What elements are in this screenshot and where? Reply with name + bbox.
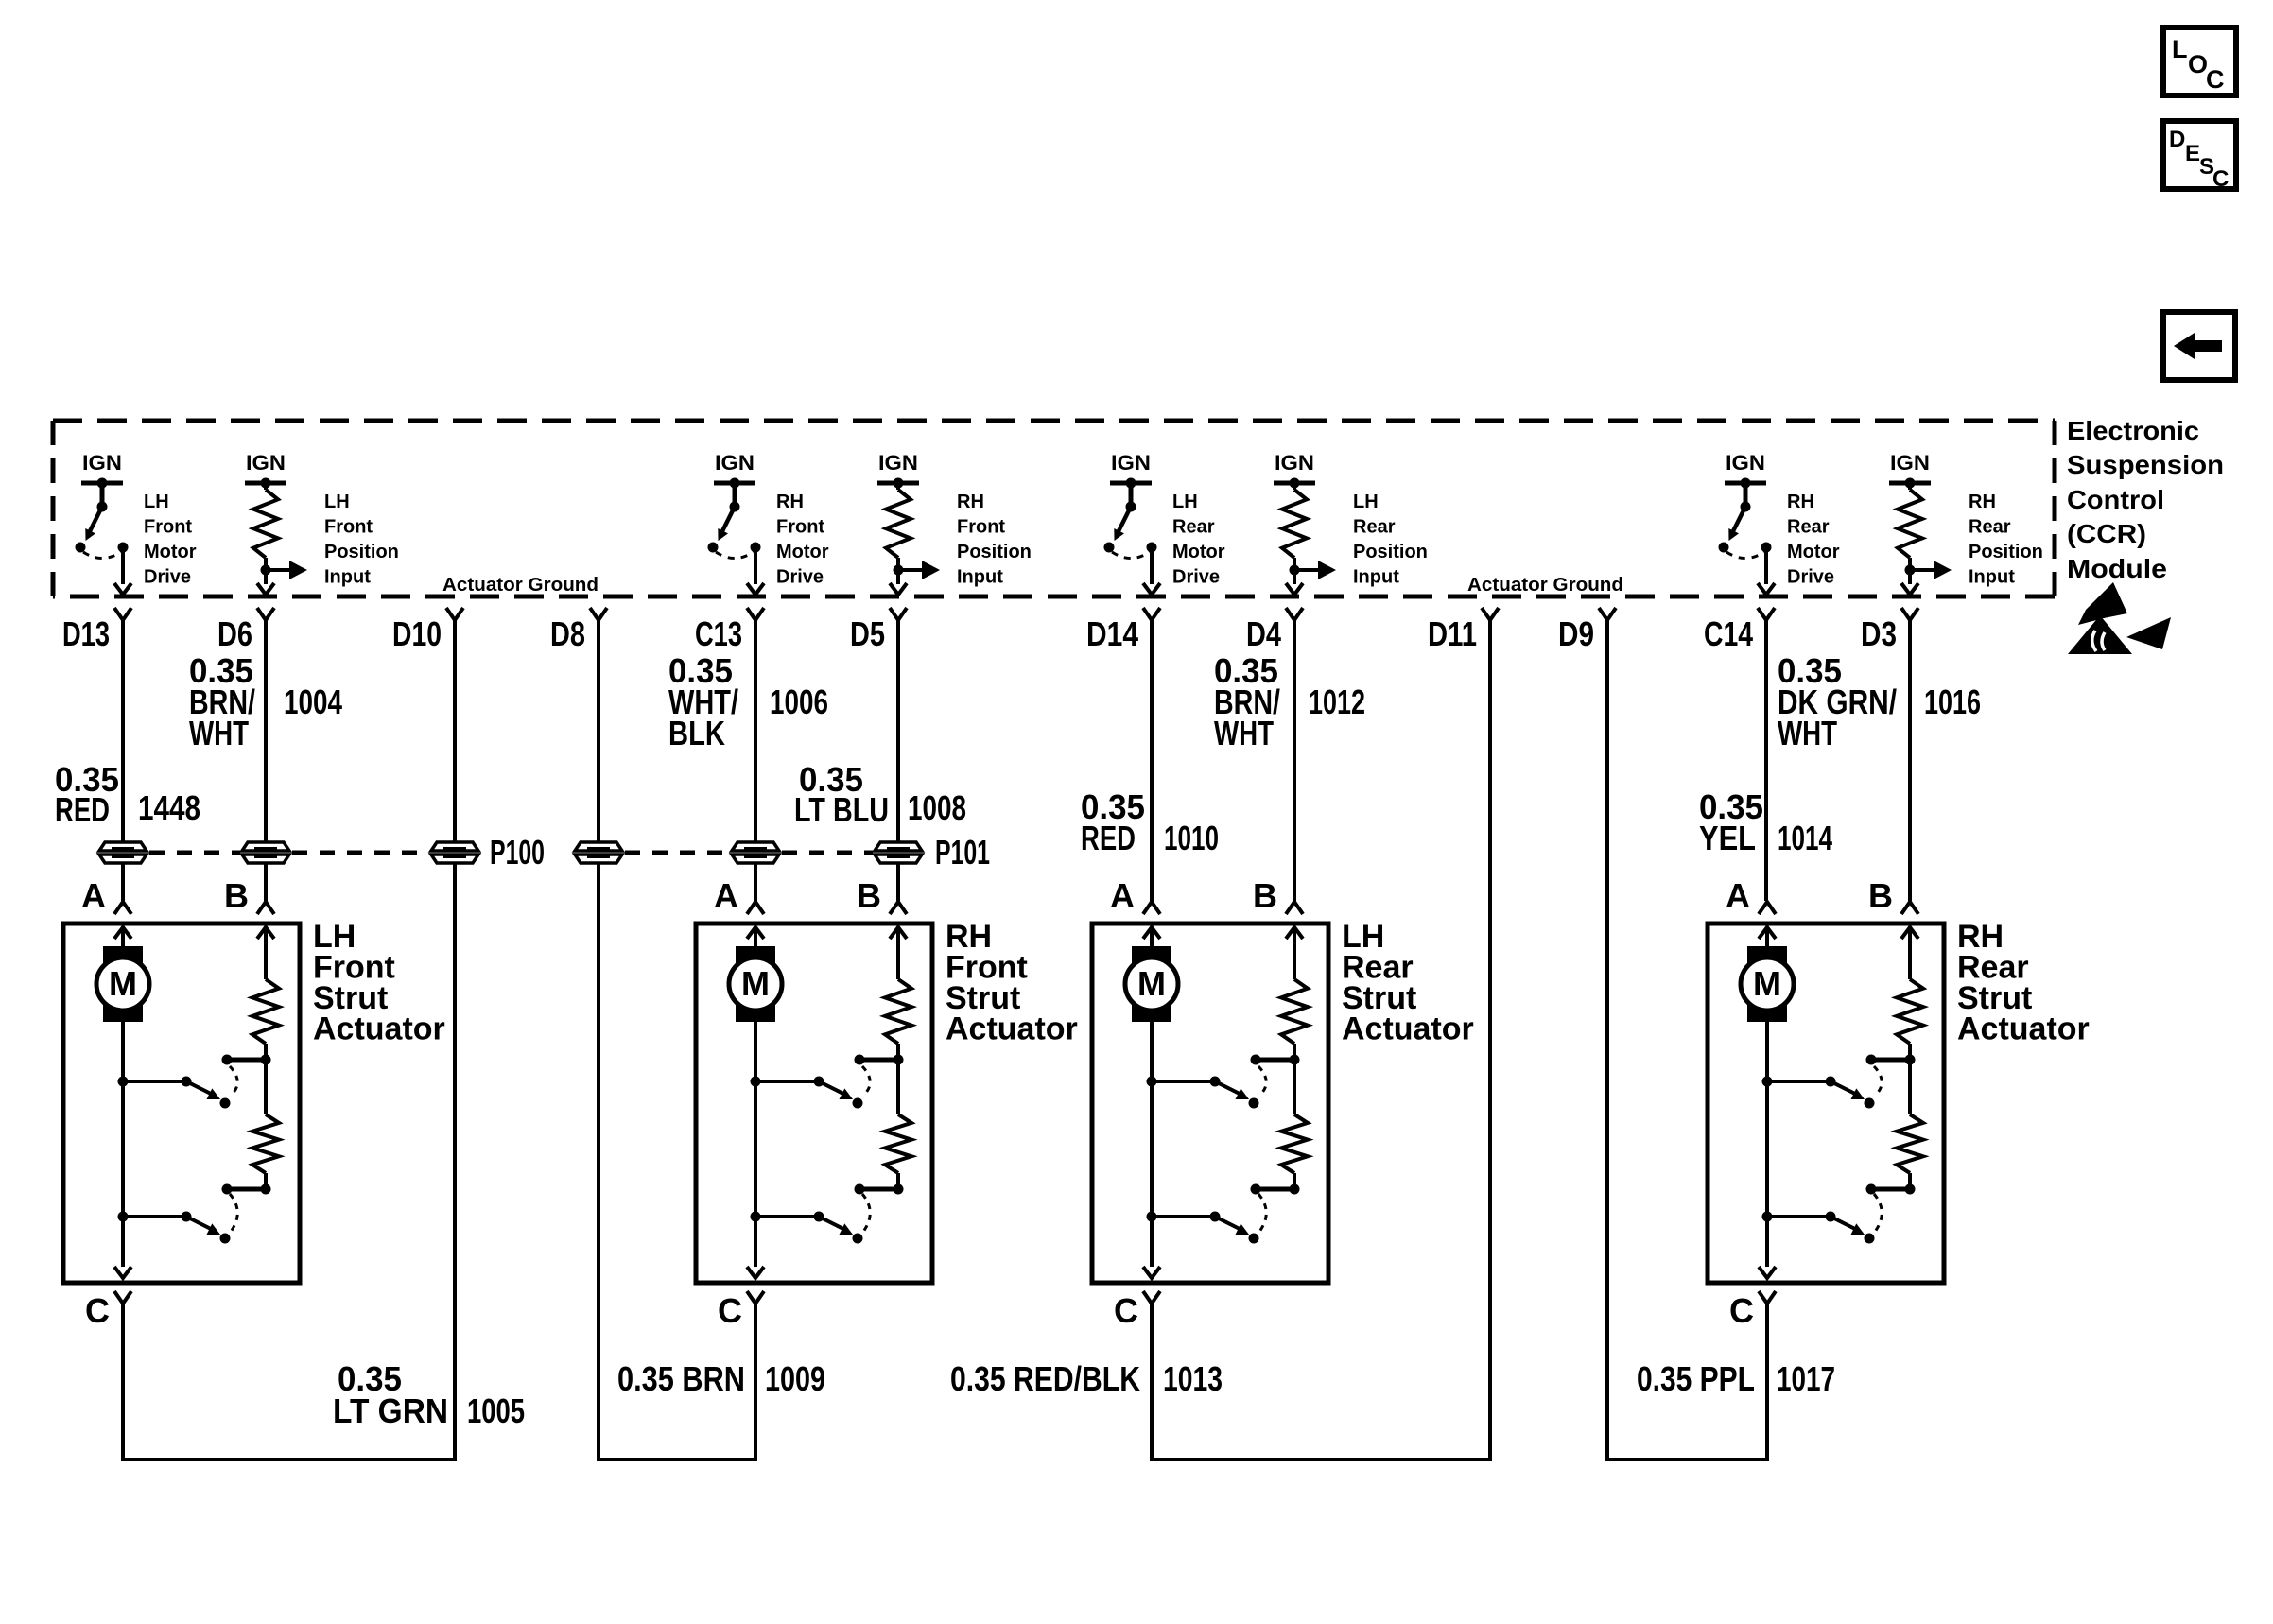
- svg-text:IGN: IGN: [1726, 451, 1765, 475]
- wire resistor to tap1: [1293, 1044, 1296, 1060]
- label LH Rear Position Input: [1353, 492, 1428, 588]
- svg-text:Motor: Motor: [776, 542, 829, 562]
- svg-text:B: B: [1253, 876, 1277, 915]
- LH Front Strut Actuator label: [313, 919, 445, 1047]
- svg-text:1014: 1014: [1778, 819, 1832, 857]
- inline connector at D10 (P100): [431, 842, 478, 863]
- inline connector at C13 (P101): [732, 842, 779, 863]
- module exit wire LH Front Motor Drive: [114, 547, 131, 595]
- module exit wire RH Front Position Input: [890, 570, 907, 595]
- Electronic Suspension Control (CCR) Module dashed outline: [53, 421, 2055, 596]
- wiper switch lower: [1762, 1212, 1875, 1244]
- inline connector at D8 (P101): [575, 842, 622, 863]
- resistor RH Rear Position Input: [1898, 483, 1922, 570]
- svg-text:Motor: Motor: [144, 542, 197, 562]
- wiper switch upper: [1147, 1077, 1259, 1109]
- wire C13 lower to pin A: [754, 863, 757, 901]
- svg-text:Actuator: Actuator: [313, 1011, 445, 1047]
- svg-text:RH: RH: [1969, 492, 1996, 512]
- label 0.35 LT BLU (1008): [794, 760, 889, 829]
- label RH Rear Position Input: [1969, 492, 2043, 588]
- svg-text:M: M: [1753, 964, 1781, 1003]
- switch LH Rear Motor Drive: [1104, 483, 1157, 559]
- wiper travel arc lower (dashed): [230, 1194, 237, 1232]
- node tap + signal arrow LH Rear Position Input: [1290, 561, 1337, 579]
- switch RH Rear Motor Drive: [1719, 483, 1772, 559]
- module exit wire RH Rear Position Input: [1901, 570, 1918, 595]
- tap 1 stub: [855, 1055, 904, 1065]
- node tap + signal arrow LH Front Position Input: [261, 561, 308, 579]
- label RH Rear Motor Drive: [1787, 492, 1840, 588]
- wire tap1 to resistor lower: [1293, 1060, 1296, 1114]
- label 0.35 YEL (1014): [1699, 787, 1763, 857]
- wire D6 lower to pin B: [264, 863, 268, 901]
- svg-text:D5: D5: [850, 614, 885, 653]
- wiper switch lower: [118, 1212, 231, 1244]
- svg-text:Position: Position: [1353, 542, 1428, 562]
- position sensor resistor upper: [1897, 979, 1923, 1044]
- RH Rear Strut Actuator: component box: [1708, 924, 1944, 1283]
- svg-text:RED: RED: [55, 790, 110, 829]
- pin D11: [1428, 608, 1499, 653]
- svg-text:1004: 1004: [284, 682, 342, 721]
- svg-text:C13: C13: [695, 614, 742, 653]
- svg-text:RH: RH: [1787, 492, 1814, 512]
- wiper switch upper: [751, 1077, 863, 1109]
- IGN node (LH Front Position Input): [245, 451, 286, 489]
- svg-text:Input: Input: [324, 567, 371, 588]
- wire resistor lower to tap2: [264, 1173, 268, 1189]
- IGN node (LH Rear Motor Drive): [1110, 451, 1152, 489]
- pin D4: [1246, 608, 1303, 653]
- svg-text:Input: Input: [1969, 567, 2015, 588]
- position sensor wire B arrow: [890, 927, 907, 979]
- LH Front Strut Actuator: component box: [63, 924, 300, 1283]
- pin C of RH Rear Strut Actuator: [1729, 1291, 1776, 1330]
- connector dashed link D13-D6: [149, 851, 240, 855]
- position sensor resistor lower: [1281, 1114, 1308, 1173]
- module exit wire RH Front Motor Drive: [747, 547, 764, 595]
- motor M inside LH: [1125, 927, 1178, 1022]
- module exit wire RH Rear Motor Drive: [1758, 547, 1775, 595]
- pin B of LH Front Strut Actuator: [224, 876, 274, 915]
- pin A of RH Front Strut Actuator: [714, 876, 764, 915]
- RH Front Strut Actuator: component box: [696, 924, 932, 1283]
- position sensor wire B arrow: [1901, 927, 1918, 979]
- svg-text:A: A: [1110, 876, 1135, 915]
- svg-text:C14: C14: [1704, 614, 1753, 653]
- pin D10: [392, 608, 463, 653]
- svg-text:(CCR): (CCR): [2067, 519, 2146, 548]
- connector dashed link D8-C13: [625, 851, 730, 855]
- tap 1 stub: [222, 1055, 271, 1065]
- label LH Front Position Input: [324, 492, 399, 588]
- label RH Front Motor Drive: [776, 492, 829, 588]
- svg-text:0.35 RED/BLK: 0.35 RED/BLK: [950, 1359, 1140, 1398]
- wire tap1 to resistor lower: [264, 1060, 268, 1114]
- pin C of LH Rear Strut Actuator: [1114, 1291, 1160, 1330]
- LOC reference icon: [2163, 27, 2236, 95]
- position sensor resistor upper: [252, 979, 279, 1044]
- wire pin C RH Front to ground splice (BRN 1009): [597, 1304, 757, 1460]
- svg-text:Front: Front: [957, 517, 1005, 538]
- svg-text:D10: D10: [392, 614, 442, 653]
- motor wire to pin C: [114, 1022, 131, 1278]
- IGN node (RH Front Position Input): [877, 451, 919, 489]
- wiper switch upper: [1762, 1077, 1875, 1109]
- wire D9 actuator ground: [1605, 620, 1609, 1458]
- tap 2 stub: [855, 1184, 904, 1195]
- svg-text:Motor: Motor: [1172, 542, 1225, 562]
- DESC reference icon: [2163, 121, 2236, 192]
- inline connector at D13 (P100): [99, 842, 147, 863]
- svg-text:C: C: [2206, 65, 2225, 94]
- wire tap1 to resistor lower: [896, 1060, 900, 1114]
- motor M inside RH: [729, 927, 782, 1022]
- wire D13 circuit 1448 upper: [121, 620, 125, 842]
- inline connector at D6 (P100): [242, 842, 289, 863]
- wiper travel arc upper (dashed): [1874, 1066, 1882, 1096]
- svg-text:Input: Input: [1353, 567, 1399, 588]
- svg-text:B: B: [224, 876, 249, 915]
- svg-text:WHT: WHT: [189, 714, 249, 752]
- wire resistor to tap1: [1908, 1044, 1912, 1060]
- svg-text:A: A: [1726, 876, 1750, 915]
- svg-text:LH: LH: [324, 492, 350, 512]
- wiper switch lower: [1147, 1212, 1259, 1244]
- wire resistor lower to tap2: [896, 1173, 900, 1189]
- svg-text:Actuator Ground: Actuator Ground: [1467, 575, 1623, 596]
- svg-text:Module: Module: [2067, 554, 2167, 583]
- svg-text:IGN: IGN: [246, 451, 286, 475]
- pin D6: [217, 608, 274, 653]
- node tap + signal arrow RH Front Position Input: [894, 561, 941, 579]
- svg-text:Drive: Drive: [1787, 567, 1834, 588]
- wiper switch lower: [751, 1212, 863, 1244]
- wiper travel arc upper (dashed): [862, 1066, 870, 1096]
- IGN node (RH Rear Position Input): [1889, 451, 1931, 489]
- IGN node (LH Rear Position Input): [1274, 451, 1315, 489]
- pin A of RH Rear Strut Actuator: [1726, 876, 1776, 915]
- svg-text:Motor: Motor: [1787, 542, 1840, 562]
- pin D3: [1861, 608, 1918, 653]
- svg-text:0.35 BRN: 0.35 BRN: [617, 1359, 745, 1398]
- svg-text:C: C: [1729, 1291, 1754, 1330]
- resistor RH Front Position Input: [886, 483, 911, 570]
- svg-text:P100: P100: [490, 833, 545, 872]
- wire D10 lower to splice: [453, 863, 457, 1458]
- svg-text:1017: 1017: [1777, 1359, 1835, 1398]
- label LH Front Motor Drive: [144, 492, 197, 588]
- svg-text:D9: D9: [1558, 614, 1594, 653]
- IGN node (LH Front Motor Drive): [81, 451, 123, 489]
- svg-text:Drive: Drive: [776, 567, 824, 588]
- wire D4 circuit 1012: [1293, 620, 1296, 901]
- svg-text:IGN: IGN: [1890, 451, 1930, 475]
- svg-text:BLK: BLK: [668, 714, 725, 752]
- svg-text:D: D: [2169, 127, 2185, 152]
- back arrow icon: [2163, 312, 2235, 380]
- svg-text:Front: Front: [144, 517, 192, 538]
- wire D13 lower to pin A: [121, 863, 125, 901]
- position sensor resistor lower: [885, 1114, 911, 1173]
- svg-text:B: B: [857, 876, 881, 915]
- pin B of LH Rear Strut Actuator: [1253, 876, 1303, 915]
- pin B of RH Rear Strut Actuator: [1868, 876, 1918, 915]
- svg-text:Position: Position: [324, 542, 399, 562]
- svg-text:1008: 1008: [908, 788, 966, 827]
- resistor LH Rear Position Input: [1282, 483, 1307, 570]
- wire D8 lower to splice: [597, 863, 600, 1458]
- pin D14: [1086, 608, 1160, 653]
- svg-text:0.35 PPL: 0.35 PPL: [1637, 1359, 1755, 1398]
- wiper travel arc upper (dashed): [1258, 1066, 1266, 1096]
- svg-text:1448: 1448: [138, 788, 200, 827]
- svg-text:D3: D3: [1861, 614, 1897, 653]
- pin A of LH Rear Strut Actuator: [1110, 876, 1160, 915]
- module exit wire LH Rear Position Input: [1286, 570, 1303, 595]
- svg-text:1013: 1013: [1163, 1359, 1223, 1398]
- LH Rear Strut Actuator: component box: [1092, 924, 1328, 1283]
- svg-text:Rear: Rear: [1787, 517, 1830, 538]
- wiper travel arc lower (dashed): [1258, 1194, 1266, 1232]
- svg-text:D14: D14: [1086, 614, 1138, 653]
- label RH Front Position Input: [957, 492, 1032, 588]
- svg-text:LH: LH: [144, 492, 169, 512]
- svg-text:D4: D4: [1246, 614, 1281, 653]
- pin D5: [850, 608, 907, 653]
- wire D3 circuit 1016: [1908, 620, 1912, 901]
- label 0.35 DK GRN/WHT (1016): [1778, 651, 1897, 752]
- label 0.35 BRN/WHT (1004): [189, 651, 255, 752]
- svg-text:D8: D8: [550, 614, 585, 653]
- svg-text:Actuator: Actuator: [1957, 1011, 2090, 1047]
- pin D13: [62, 608, 131, 653]
- svg-text:D11: D11: [1428, 614, 1477, 653]
- pin D8: [550, 608, 607, 653]
- svg-text:1016: 1016: [1924, 682, 1981, 721]
- pin C of LH Front Strut Actuator: [85, 1291, 131, 1330]
- svg-text:Rear: Rear: [1969, 517, 2011, 538]
- svg-text:Position: Position: [1969, 542, 2043, 562]
- label LH Rear Motor Drive: [1172, 492, 1225, 588]
- wiper travel arc lower (dashed): [862, 1194, 870, 1232]
- svg-text:Drive: Drive: [1172, 567, 1220, 588]
- svg-text:P101: P101: [935, 833, 990, 872]
- inline connector at D5 (P101): [875, 842, 922, 863]
- svg-text:YEL: YEL: [1699, 819, 1756, 857]
- svg-text:Actuator: Actuator: [946, 1011, 1078, 1047]
- wire resistor lower to tap2: [1908, 1173, 1912, 1189]
- wire D14 circuit 1010: [1150, 620, 1154, 901]
- position sensor wire B arrow: [1286, 927, 1303, 979]
- wiper travel arc lower (dashed): [1874, 1194, 1882, 1232]
- svg-text:WHT: WHT: [1214, 714, 1274, 752]
- wire C14 circuit 1014: [1764, 620, 1768, 901]
- svg-text:Front: Front: [776, 517, 824, 538]
- svg-text:O: O: [2188, 50, 2208, 78]
- svg-text:RH: RH: [776, 492, 804, 512]
- module name label: [2067, 416, 2224, 583]
- tap 1 stub: [1251, 1055, 1300, 1065]
- wire D5 circuit 1008 upper: [896, 620, 900, 842]
- wire C13 circuit 1006 upper: [754, 620, 757, 842]
- tap 2 stub: [222, 1184, 271, 1195]
- switch LH Front Motor Drive: [76, 483, 129, 559]
- svg-text:E: E: [2185, 141, 2200, 166]
- pin C13: [695, 608, 764, 653]
- node tap + signal arrow RH Rear Position Input: [1905, 561, 1952, 579]
- svg-text:C: C: [1114, 1291, 1138, 1330]
- wiper travel arc upper (dashed): [230, 1066, 237, 1096]
- wire D8 actuator ground upper: [597, 620, 600, 842]
- svg-text:RED: RED: [1081, 819, 1136, 857]
- tap 2 stub: [1251, 1184, 1300, 1195]
- svg-text:Rear: Rear: [1172, 517, 1215, 538]
- svg-text:Actuator Ground: Actuator Ground: [442, 575, 599, 596]
- svg-text:D6: D6: [217, 614, 252, 653]
- wire D5 lower to pin B: [896, 863, 900, 901]
- svg-text:Actuator: Actuator: [1342, 1011, 1474, 1047]
- wire resistor lower to tap2: [1293, 1173, 1296, 1189]
- RH Front Strut Actuator label: [946, 919, 1078, 1047]
- switch RH Front Motor Drive: [708, 483, 761, 559]
- position sensor resistor upper: [1281, 979, 1308, 1044]
- svg-text:IGN: IGN: [82, 451, 122, 475]
- tap 2 stub: [1866, 1184, 1916, 1195]
- motor wire to pin C: [1759, 1022, 1776, 1278]
- svg-text:Input: Input: [957, 567, 1003, 588]
- wire pin C RH Rear to ground splice (PPL 1017): [1605, 1304, 1769, 1460]
- RH Rear Strut Actuator label: [1957, 919, 2090, 1047]
- connector dashed link C13-D5: [782, 851, 873, 855]
- wire tap1 to resistor lower: [1908, 1060, 1912, 1114]
- resistor LH Front Position Input: [253, 483, 278, 570]
- svg-text:L: L: [2172, 35, 2188, 63]
- label 0.35 BRN/WHT (1012): [1214, 651, 1280, 752]
- svg-text:1006: 1006: [770, 682, 828, 721]
- svg-text:LT BLU: LT BLU: [794, 790, 889, 829]
- position sensor resistor lower: [1897, 1114, 1923, 1173]
- svg-text:1009: 1009: [765, 1359, 825, 1398]
- position sensor resistor lower: [252, 1114, 279, 1173]
- svg-text:C: C: [718, 1291, 742, 1330]
- svg-text:IGN: IGN: [1275, 451, 1314, 475]
- IGN node (RH Front Motor Drive): [714, 451, 755, 489]
- module exit wire LH Front Position Input: [257, 570, 274, 595]
- svg-text:C: C: [85, 1291, 110, 1330]
- svg-text:B: B: [1868, 876, 1893, 915]
- motor M inside RH: [1741, 927, 1794, 1022]
- ESD sensitive device warning symbol: [2068, 582, 2171, 654]
- label 0.35 WHT/BLK (1006): [668, 651, 738, 752]
- pin D9: [1558, 608, 1616, 653]
- pin C of RH Front Strut Actuator: [718, 1291, 764, 1330]
- wire D6 circuit 1004 upper: [264, 620, 268, 842]
- svg-text:IGN: IGN: [715, 451, 755, 475]
- svg-text:Position: Position: [957, 542, 1032, 562]
- svg-text:IGN: IGN: [878, 451, 918, 475]
- wire pin C LH Rear to ground splice (RED/BLK 1013): [1150, 1304, 1492, 1460]
- wire D11 actuator ground: [1488, 620, 1492, 1458]
- svg-text:M: M: [109, 964, 137, 1003]
- position sensor resistor upper: [885, 979, 911, 1044]
- pin B of RH Front Strut Actuator: [857, 876, 907, 915]
- svg-text:D13: D13: [62, 614, 110, 653]
- motor wire to pin C: [1143, 1022, 1160, 1278]
- connector dashed link D6-D10: [292, 851, 429, 855]
- svg-text:RH: RH: [957, 492, 984, 512]
- IGN node (RH Rear Motor Drive): [1725, 451, 1766, 489]
- wire resistor to tap1: [896, 1044, 900, 1060]
- svg-text:LT GRN: LT GRN: [333, 1391, 448, 1430]
- svg-text:M: M: [741, 964, 770, 1003]
- svg-text:1012: 1012: [1309, 682, 1365, 721]
- wire resistor to tap1: [264, 1044, 268, 1060]
- position sensor wire B arrow: [257, 927, 274, 979]
- pin A of LH Front Strut Actuator: [81, 876, 131, 915]
- label 0.35 LT GRN: [333, 1359, 448, 1430]
- svg-text:1010: 1010: [1164, 819, 1219, 857]
- svg-text:Electronic: Electronic: [2067, 416, 2199, 445]
- wiper switch upper: [118, 1077, 231, 1109]
- svg-text:Suspension: Suspension: [2067, 450, 2224, 479]
- svg-text:1005: 1005: [467, 1391, 525, 1430]
- module exit wire LH Rear Motor Drive: [1143, 547, 1160, 595]
- svg-text:LH: LH: [1353, 492, 1379, 512]
- svg-text:C: C: [2212, 166, 2229, 192]
- label 0.35 RED (1010): [1081, 787, 1145, 857]
- svg-text:LH: LH: [1172, 492, 1198, 512]
- motor M inside LH: [96, 927, 149, 1022]
- svg-text:Front: Front: [324, 517, 373, 538]
- svg-text:WHT: WHT: [1778, 714, 1837, 752]
- wire pin C LH Front to ground splice (LT GRN 1005): [121, 1304, 457, 1460]
- svg-text:Rear: Rear: [1353, 517, 1396, 538]
- label 0.35 RED (1448): [55, 760, 119, 829]
- LH Rear Strut Actuator label: [1342, 919, 1474, 1047]
- svg-text:A: A: [81, 876, 106, 915]
- svg-text:M: M: [1137, 964, 1166, 1003]
- tap 1 stub: [1866, 1055, 1916, 1065]
- svg-text:Control: Control: [2067, 485, 2164, 514]
- svg-text:A: A: [714, 876, 738, 915]
- motor wire to pin C: [747, 1022, 764, 1278]
- svg-text:IGN: IGN: [1111, 451, 1151, 475]
- svg-text:Drive: Drive: [144, 567, 191, 588]
- wire D10 actuator ground upper: [453, 620, 457, 842]
- pin C14: [1704, 608, 1775, 653]
